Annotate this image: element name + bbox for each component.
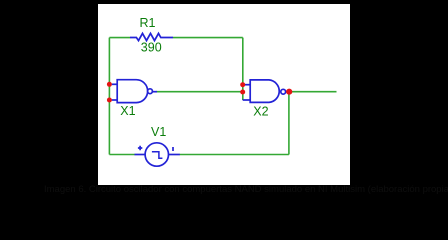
svg-text:X1: X1 bbox=[120, 104, 135, 118]
svg-text:V1: V1 bbox=[151, 125, 166, 139]
svg-text:390: 390 bbox=[141, 40, 162, 54]
svg-text:R1: R1 bbox=[140, 16, 156, 30]
svg-text:X2: X2 bbox=[253, 105, 268, 119]
